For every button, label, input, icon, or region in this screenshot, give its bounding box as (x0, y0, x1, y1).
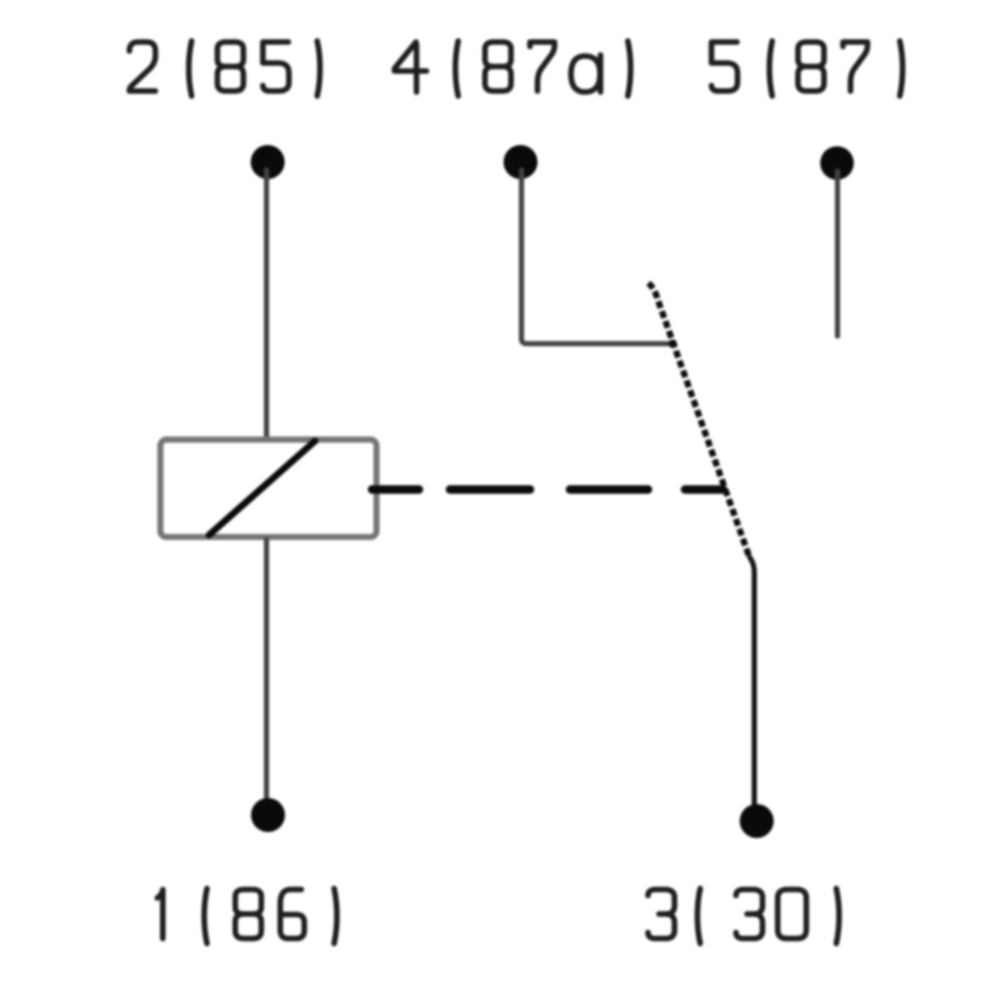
wire pin 4 vertical segment (522, 170, 671, 344)
wire coil bottom to pin 1 (264, 540, 269, 807)
junction bead wire 87a to armature (669, 340, 677, 348)
coil diagonal stroke (209, 441, 315, 535)
switch arm bend to vertical (750, 558, 755, 807)
terminal dot pin 4 (87a) (504, 145, 538, 179)
mechanical link dashed from coil to armature (372, 485, 723, 494)
pin label 2(85) (129, 41, 320, 96)
pin label 1(86) (157, 889, 337, 944)
pin label 3(30) (648, 889, 839, 944)
pin label 4(87a) (395, 41, 631, 96)
terminal dot pin 2 (85) (251, 145, 285, 179)
terminal dot pin 3 (30) (740, 804, 774, 838)
wire pin 5 stub (unused NO contact) (835, 171, 840, 336)
switch armature dashed diagonal (contact arm) (649, 283, 750, 556)
wire pin 2 to coil top (264, 170, 269, 437)
terminal dot pin 1 (86) (251, 798, 285, 832)
pin label 5(87) (712, 41, 903, 96)
relay coil K1 box (160, 440, 376, 537)
terminal dot pin 5 (87) (820, 146, 854, 180)
